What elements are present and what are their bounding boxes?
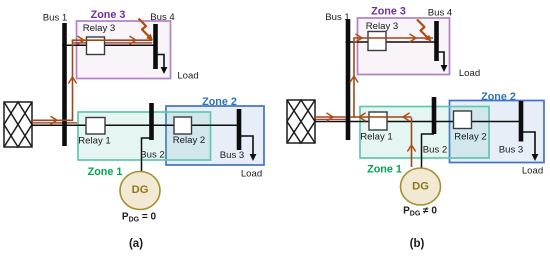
relay R2 box (b)	[454, 111, 472, 129]
flow arrow up riser (b)	[350, 76, 358, 82]
flow arrow up from DG (b)	[408, 145, 416, 151]
zone 1 region (a)	[78, 112, 211, 160]
wire: top line bus1-bus4 (a)	[62, 44, 155, 46]
svg-text:Zone 3: Zone 3	[371, 6, 406, 18]
svg-text:Relay 3: Relay 3	[366, 21, 399, 32]
flow arrow into bus 1 from DG (b)	[359, 113, 365, 121]
zone 2 region (a)	[166, 106, 264, 165]
relay R3 box (b)	[368, 32, 386, 51]
svg-text:Zone 1: Zone 1	[367, 164, 402, 176]
relay R2 box (a)	[174, 117, 192, 134]
svg-text:Relay 1: Relay 1	[78, 136, 111, 147]
fault current wire: bus 1 to bus 4 (a)	[72, 39, 152, 41]
svg-text:(b): (b)	[410, 238, 425, 250]
wire: top line bus1-bus4 (b)	[346, 41, 437, 43]
wire: DG tap to bus 2 (a)	[142, 138, 152, 171]
load feeder arrow at bus 3 (b)	[521, 132, 538, 161]
bus 3 bar (a)	[237, 109, 242, 150]
svg-text:Bus 3: Bus 3	[220, 150, 245, 161]
wire: feeder bus1-bus2-bus3 (b)	[315, 121, 521, 123]
flow arrow toward relay 3 (a)	[78, 36, 84, 44]
svg-text:Load: Load	[459, 68, 480, 79]
svg-text:(a): (a)	[129, 238, 143, 250]
svg-text:Zone 2: Zone 2	[481, 91, 516, 103]
zone 2 region (b)	[450, 101, 545, 163]
relay R3 box (a)	[87, 37, 105, 55]
bus 4 bar (b)	[434, 21, 439, 61]
flow arrow toward bus 4 (b)	[410, 34, 416, 42]
svg-text:Zone 3: Zone 3	[91, 9, 126, 21]
DG generator circle (a)	[120, 172, 160, 210]
load feeder arrow at bus 4 (b)	[437, 52, 448, 72]
svg-text:Bus 4: Bus 4	[150, 12, 175, 23]
svg-text:Zone 1: Zone 1	[88, 166, 123, 178]
svg-text:Bus 3: Bus 3	[499, 144, 524, 155]
utility grid source G1 (b)	[287, 100, 315, 143]
svg-text:Bus 1: Bus 1	[325, 12, 350, 23]
zone 3 region (b)	[358, 18, 450, 75]
fault current wire: grid to bus 1 underline (b)	[315, 118, 350, 120]
flow arrow toward bus 4 (a)	[130, 36, 136, 44]
fault bolt at bus 4 (b)	[417, 20, 432, 42]
svg-text:Zone 2: Zone 2	[202, 96, 237, 108]
load feeder arrow at bus 3 (a)	[239, 136, 256, 161]
svg-text:Relay 2: Relay 2	[454, 132, 487, 143]
flow arrow toward relay 3 (b)	[356, 34, 362, 42]
flow arrow up riser (a)	[69, 77, 77, 83]
svg-text:Load: Load	[177, 71, 198, 82]
fault bolt at bus 4 (a)	[139, 19, 154, 41]
svg-text:PDG = 0: PDG = 0	[122, 212, 157, 224]
bus 2 bar (b)	[432, 97, 437, 134]
relay R1 box (a)	[86, 118, 105, 135]
fault current wire: DG riser to feeder (b)	[411, 118, 413, 167]
load feeder arrow at bus 4 (a)	[156, 55, 168, 75]
svg-text:Bus 2: Bus 2	[423, 144, 448, 155]
bus 2 bar (a)	[149, 103, 154, 140]
wire: DG tap to bus 2 (b)	[422, 134, 435, 168]
wire: feeder bus1-bus2-bus3 (a)	[32, 124, 239, 126]
fault current wire: bus 1 to bus 4 (b)	[353, 37, 433, 39]
svg-text:DG: DG	[132, 184, 149, 196]
fault current wire: grid to bus 1 (a)	[32, 119, 73, 121]
svg-text:PDG ≠ 0: PDG ≠ 0	[403, 206, 437, 218]
flow arrow grid to bus 1 (a)	[51, 117, 57, 125]
fault current wire: bus 1 to bus 4 underline (a)	[73, 42, 153, 44]
flow arrow grid to bus 1 (b)	[327, 113, 333, 121]
zone 3 region (a)	[77, 21, 171, 79]
svg-text:Bus 4: Bus 4	[428, 7, 453, 18]
svg-text:Relay 1: Relay 1	[360, 131, 393, 142]
svg-text:Load: Load	[241, 169, 262, 180]
fault current wire: riser along bus 1 (b)	[353, 38, 355, 118]
bus 1 bar (a)	[62, 23, 67, 146]
bus 1 bar (b)	[346, 19, 351, 140]
svg-text:Load: Load	[522, 166, 543, 177]
fault current wire: riser along bus 1 (a)	[72, 40, 74, 121]
bus 3 bar (b)	[519, 101, 524, 142]
zone 1 region (b)	[360, 107, 489, 159]
svg-text:DG: DG	[412, 181, 429, 193]
svg-text:Relay 2: Relay 2	[173, 135, 206, 146]
svg-text:Relay 3: Relay 3	[83, 23, 116, 34]
DG generator circle (b)	[401, 168, 441, 205]
fault current wire: grid to bus 1 underline (a)	[32, 122, 77, 124]
relay R1 box (b)	[369, 112, 387, 130]
bus 4 bar (a)	[153, 24, 158, 69]
utility grid source G1 (a)	[4, 102, 32, 147]
fault current wire: bus 2 to bus 1 from DG (b)	[350, 116, 412, 118]
svg-text:Bus 2: Bus 2	[140, 149, 165, 160]
flow arrow toward relay 1 from DG (b)	[403, 113, 409, 121]
fault current wire: grid to bus 1 (b)	[315, 116, 346, 118]
svg-text:Bus 1: Bus 1	[43, 13, 68, 24]
